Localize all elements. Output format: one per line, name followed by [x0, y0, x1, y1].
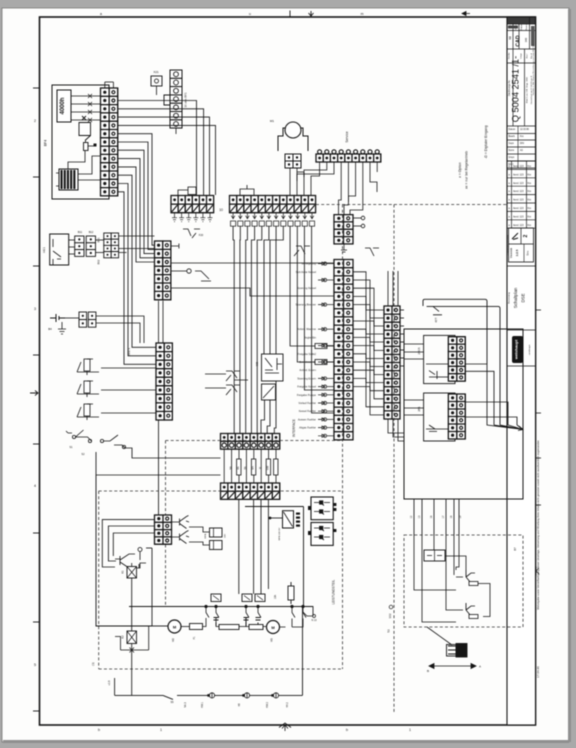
interface terminal strip X4 [334, 260, 353, 440]
wire bus vertical left [151, 548, 153, 626]
arrow into box edge [518, 426, 523, 431]
choke L1 [288, 582, 294, 604]
terminal strip X8b [230, 196, 316, 213]
wire ignition net 2 [422, 535, 456, 622]
svg-text:53: 53 [387, 629, 391, 633]
svg-text:HW.1: HW.1 [201, 701, 204, 708]
svg-text:-weishaupt-: -weishaupt- [528, 344, 531, 356]
frame top left arrowhead [462, 12, 470, 16]
svg-text:Urspr.: Urspr. [509, 156, 515, 159]
transistor Q1 [172, 516, 190, 529]
power strip X13 upper [221, 434, 280, 450]
niveau switch S1 [66, 430, 92, 443]
svg-text:3: 3 [34, 307, 36, 311]
svg-text:Sich.Kette Kessel: Sich.Kette Kessel [296, 270, 317, 274]
svg-text:B11: B11 [78, 230, 83, 234]
transistor Q2 [172, 531, 190, 544]
wire M2 to starter [181, 626, 190, 628]
X9 right stub 2 [353, 225, 361, 227]
rail switch S5 [163, 695, 185, 699]
resistor R10 on interface wire [315, 344, 327, 349]
svg-text:Blatt 1 von 1 Bl. Urspr. 1989: Blatt 1 von 1 Bl. Urspr. 1989 [526, 76, 529, 103]
svg-text:6N: 6N [237, 466, 240, 469]
svg-text:M: M [259, 467, 262, 469]
wire B22 to X3 [101, 389, 156, 391]
svg-text:Anford. Waerme: Anford. Waerme [297, 327, 316, 331]
projection box bottom divider [523, 244, 525, 262]
rail right riser to bus [302, 607, 304, 696]
frame top ticks and labels [289, 11, 291, 18]
svg-text:x = Option: x = Option [458, 162, 462, 178]
distance arrow [429, 664, 476, 669]
wire U2 left [270, 517, 283, 519]
motor connector X12 [285, 154, 301, 168]
svg-text:m: m [361, 12, 364, 16]
2B1 internal switch [429, 425, 437, 431]
svg-text:Verriegelung: Verriegelung [301, 262, 316, 266]
company logo [512, 336, 523, 363]
terminal strip X11 [384, 306, 400, 419]
wire niveau lower to power section [96, 452, 221, 475]
sensor B22 [77, 381, 99, 397]
svg-text:Zeichnungs-Nr.: Zeichnungs-Nr. [508, 80, 511, 97]
svg-text:B4: B4 [48, 327, 52, 331]
control unit BF4 outline [52, 85, 109, 199]
thermal switch F23 [226, 371, 248, 381]
wires X6 to X2 staircase [119, 236, 155, 253]
relay K1 [127, 567, 137, 579]
title block schaltplan cell [507, 265, 536, 267]
dashed power box bottom [99, 668, 343, 670]
remote unit HE1 box [50, 234, 69, 265]
pump M2 [168, 620, 181, 633]
svg-text:102: 102 [388, 613, 392, 618]
svg-text:Aend. 123: Aend. 123 [513, 190, 524, 193]
wire F23 left [205, 373, 226, 375]
dashed boundary 102 [393, 205, 395, 713]
svg-text:LEISTUNGSTEIL: LEISTUNGSTEIL [332, 579, 336, 604]
svg-text:MFB 100 SV: MFB 100 SV [279, 527, 281, 540]
wire U2 vertical drop [303, 507, 305, 607]
2B15 wire b [437, 376, 448, 378]
svg-text:K1: K1 [121, 570, 125, 574]
svg-text:Datum: Datum [520, 24, 523, 31]
loop resistor row 2 [249, 625, 263, 630]
V2 side terminals [308, 531, 311, 535]
svg-text:DSE: DSE [521, 293, 526, 302]
stub terminals right of X2 [171, 244, 179, 249]
service strip wires down [297, 162, 377, 215]
spark electrode 2 [456, 603, 475, 616]
wires X2 to X3 link [158, 301, 160, 343]
wires above X11 [388, 271, 398, 306]
bundle X8b to analog inputs [290, 226, 334, 413]
svg-text:Regler Ein: Regler Ein [304, 335, 317, 339]
electrode resistor 1 [469, 582, 478, 586]
X4 left stub wires and labels [318, 262, 334, 437]
wire net 3 [453, 535, 455, 575]
niveau switch S2 [100, 435, 125, 449]
wire B4 to X7 [65, 317, 79, 319]
burner module 2B15 box [424, 335, 455, 383]
wire K2 bottom loop [115, 627, 149, 651]
svg-text:Verteiler u. Abt. Namen Bezeic: Verteiler u. Abt. Namen Bezeichnung und … [532, 44, 535, 96]
wire X7 lower to X3 [96, 323, 140, 343]
svg-text:Norm: Norm [509, 149, 515, 152]
svg-text:4: 4 [34, 484, 36, 488]
wire MB2 down [156, 86, 158, 95]
power strip X13 lower [221, 483, 280, 499]
svg-text:N 13: N 13 [311, 619, 317, 622]
frame bottom fold arrow [279, 723, 291, 731]
dashed power box top [99, 490, 343, 492]
wire L-path 45deg upper [423, 299, 487, 364]
jumper links above X8b [240, 185, 254, 195]
wire X5-X6 b [96, 252, 104, 254]
svg-text:HE1: HE1 [42, 247, 46, 253]
svg-text:12.03.96: 12.03.96 [520, 129, 530, 131]
wire L-path outer [427, 306, 500, 425]
revision table lines [507, 161, 536, 228]
bundle X8b to power strips [233, 226, 262, 433]
svg-text:Service: Service [345, 131, 349, 142]
U2 terminal bars [296, 513, 300, 527]
starter box M2 [190, 624, 203, 630]
2B15 internal switch [429, 371, 437, 379]
relay K7 box [262, 384, 276, 400]
ignition dashed box [404, 535, 523, 627]
wire 2B1 right connections [465, 402, 508, 425]
wire R2 to bar [88, 145, 94, 147]
sensor B21 [77, 359, 99, 375]
relay K6 box [262, 354, 284, 381]
stub below BF1 [175, 128, 177, 134]
plug strip BF1 [164, 70, 182, 128]
pump M3 [267, 621, 280, 634]
switch 45deg [433, 306, 442, 314]
wire joiner [146, 547, 152, 549]
svg-text:Bearb.: Bearb. [509, 135, 516, 138]
motor M1 [285, 122, 301, 138]
wires HE1 to X5 [69, 239, 75, 241]
svg-text:Aussen Fuehler: Aussen Fuehler [298, 417, 316, 421]
wire K6 down [274, 381, 276, 434]
stub N13 [303, 612, 312, 616]
wire X14 b [108, 526, 154, 561]
wire resistor to transformer [68, 151, 85, 169]
long wire X2 lower to interface [171, 288, 334, 296]
svg-text:2: 2 [523, 234, 529, 237]
stub with lamp right of X2 [171, 270, 187, 272]
V1 side terminals [308, 506, 311, 510]
terminal bar right of R2 [94, 144, 97, 147]
svg-text:049: 049 [524, 37, 528, 42]
connector block pair X5 [75, 236, 96, 256]
diagonal pointer to plug [427, 627, 452, 645]
svg-text:MB: MB [255, 362, 259, 366]
title block header band [508, 18, 536, 25]
svg-text:MA: MA [252, 466, 255, 470]
svg-text:4000h: 4000h [60, 97, 66, 114]
svg-text:-D = Digitaler Eingang: -D = Digitaler Eingang [484, 125, 488, 158]
wire 2B15 r2 [465, 371, 494, 425]
terminal strip X1 [101, 88, 118, 196]
svg-text:Freigabe Stufe2: Freigabe Stufe2 [298, 352, 317, 356]
svg-text:(1): (1) [91, 662, 95, 665]
wires right of electrodes [478, 584, 490, 617]
thermal cutout F20 [183, 229, 200, 238]
wire to electrode 2 [446, 535, 456, 610]
svg-text:Datum: Datum [509, 128, 516, 131]
jumper box above X8a [188, 187, 196, 195]
wire bus end right [303, 607, 313, 617]
dashed interface bottom [166, 440, 343, 442]
svg-text:Anford. Extern: Anford. Extern [299, 368, 316, 372]
svg-text:BF4: BF4 [44, 140, 48, 146]
2B15 internal wires [426, 363, 448, 365]
bundle X1 to X8a connector [118, 101, 216, 196]
svg-text:u: u [249, 12, 251, 16]
svg-text:03: 03 [508, 36, 512, 40]
bundle X1 to X2 staircase [118, 134, 156, 365]
ignition transformer [424, 550, 445, 561]
svg-text:5: 5 [34, 663, 36, 667]
svg-text:2B15: 2B15 [417, 347, 421, 354]
driver connector X14 [155, 515, 172, 544]
svg-text:weishaupt: weishaupt [514, 339, 519, 360]
svg-text:B: B [427, 669, 429, 673]
motor wire 2 [296, 168, 298, 195]
svg-text:S2: S2 [81, 452, 85, 456]
resistor R2 [84, 143, 89, 151]
wire transformer upper [78, 156, 101, 174]
wire niveau to power section [125, 448, 221, 458]
svg-text:Weitergabe sowie Vervielfaelti: Weitergabe sowie Vervielfaeltigung diese… [536, 440, 540, 610]
resistor R11 on interface wire [315, 360, 327, 365]
wire left feed to pump bus [96, 475, 152, 626]
svg-text:M1: M1 [270, 119, 274, 123]
svg-text:Aend. 123: Aend. 123 [513, 165, 524, 168]
motor wires down [289, 168, 291, 195]
relay coil K3 [79, 116, 91, 141]
svg-text:Betriebsstd. Z.: Betriebsstd. Z. [299, 360, 316, 364]
wire HE1 b [69, 246, 75, 248]
svg-text:45'T: 45'T [434, 317, 438, 322]
output relay module V2 [311, 523, 333, 546]
rail inline fuse 1 [209, 693, 214, 698]
svg-text:Abgas Fuehler: Abgas Fuehler [299, 426, 316, 430]
2B15 terminal strip [448, 337, 465, 381]
battery B4 symbol [50, 314, 65, 322]
svg-text:HW.2: HW.2 [266, 701, 269, 708]
title block extra dark marks [531, 26, 535, 46]
svg-text:Kessel Fuehler: Kessel Fuehler [299, 409, 316, 413]
svg-text:Name: Name [526, 23, 528, 30]
svg-text:10: 10 [219, 208, 223, 212]
dashed boundary interface right [342, 205, 344, 670]
transformer T1 [56, 169, 78, 190]
frame left arrow mark [30, 391, 38, 396]
wire to electrode 1 [445, 556, 466, 570]
svg-text:10 okm BF1: 10 okm BF1 [184, 92, 188, 108]
transistor Q3 [115, 554, 139, 568]
2B1 internal wire [426, 428, 448, 430]
svg-text:2B1: 2B1 [417, 406, 421, 412]
svg-text:1:2.5: 1:2.5 [515, 249, 519, 256]
wire K1 to K2 [131, 578, 133, 631]
motor M1 housing [278, 128, 308, 151]
svg-text:b: b [346, 728, 348, 732]
dashed boundary top [316, 204, 507, 206]
frame right asterisk mark [533, 567, 539, 576]
bus line [129, 606, 313, 608]
svg-text:Gepr.: Gepr. [509, 142, 515, 145]
frame tick marks left [33, 87, 40, 89]
svg-text:a: a [100, 12, 102, 16]
svg-text:Schaltplan: Schaltplan [513, 287, 518, 308]
svg-text:F20: F20 [199, 233, 204, 237]
service strip X10 [316, 150, 381, 162]
wires below burner box [414, 499, 459, 535]
rail segment 2 [185, 694, 303, 696]
svg-text:Ers.f: Ers.f [526, 53, 529, 58]
rail inline fuse 2 [244, 693, 249, 698]
svg-text:B12: B12 [89, 230, 94, 234]
wire starter to bus [203, 618, 207, 627]
svg-text:NA.3: NA.3 [184, 702, 187, 708]
svg-text:B02: B02 [97, 259, 101, 264]
bottom rail wire [115, 694, 163, 696]
wire Q2-K12 [189, 542, 210, 545]
svg-text:HB: HB [238, 703, 241, 707]
wire 2B1 r2 [465, 417, 517, 425]
long wire X2 row to interface [171, 262, 334, 264]
title block vertical divider mid rows [517, 126, 519, 168]
stub wires above X1 [104, 82, 106, 88]
fuse bank F1-F4 [224, 449, 278, 483]
wire X3 down to X14 [158, 420, 160, 515]
svg-text:Freigabe Pumpe: Freigabe Pumpe [297, 393, 317, 397]
X9 right stub 1 [353, 217, 361, 219]
wire M3 to choke column [280, 619, 304, 628]
terminal strip X8a [171, 196, 214, 213]
wire B23 to X3 [101, 412, 156, 414]
wire F24 left [205, 387, 226, 389]
plug connector symbol [447, 644, 468, 658]
relay module K12 [210, 541, 223, 550]
switch right of X2 [195, 271, 211, 281]
frame top fold arrow [309, 11, 314, 16]
svg-text:NA: NA [229, 466, 232, 470]
hour counter B1 [57, 90, 71, 122]
relay K2 [127, 631, 137, 644]
wire rail left riser [114, 678, 116, 695]
terminal strip X3 [156, 343, 172, 420]
projection scale box [509, 228, 534, 262]
ground symbol below B4 [58, 322, 66, 334]
svg-text:M2: M2 [171, 638, 175, 642]
wire X7 to bundle [96, 316, 144, 343]
svg-text:MW: MW [266, 465, 269, 470]
output relay module V1 [311, 497, 333, 520]
wires X11 into burner box [400, 310, 424, 415]
svg-text:M3: M3 [270, 638, 274, 642]
svg-text:1: 1 [409, 728, 411, 732]
wire K7 b [267, 400, 270, 434]
bus junction dots [204, 605, 304, 608]
optocoupler U2 [283, 511, 294, 528]
sensor B23 [77, 404, 99, 420]
thermal contact F22 [365, 248, 379, 256]
svg-text:17.04.96: 17.04.96 [536, 666, 540, 678]
svg-text:xx = nur bei Regelantrieb: xx = nur bei Regelantrieb [465, 151, 469, 189]
capacitor symbols row [214, 618, 261, 626]
X4 german text labels [296, 262, 317, 430]
title block outline [507, 17, 536, 725]
rail dots [207, 694, 210, 697]
earth terminals below X8a [172, 213, 213, 222]
svg-text:Massstab: Massstab [510, 247, 513, 258]
wire R11 to X4 [327, 361, 334, 363]
wire K2 down to rail [131, 650, 133, 695]
svg-text:Aend. 123: Aend. 123 [513, 173, 524, 176]
wires below X11 [388, 419, 404, 441]
wires Q to K modules [189, 527, 210, 532]
wire HE1 c [69, 253, 75, 255]
2B1 terminal strip [448, 394, 465, 439]
svg-text:Stoerung Extern: Stoerung Extern [297, 376, 316, 380]
svg-text:Stoerung Brenner: Stoerung Brenner [296, 303, 317, 307]
terminal circle above Q3 [139, 552, 141, 560]
bundle X8b to relay K6 [264, 226, 283, 354]
connector module MB2 [151, 76, 162, 86]
diode mark K2 loop [130, 648, 135, 653]
relay contact modules row [211, 594, 221, 602]
thermal switch F24 [226, 385, 240, 395]
electrode resistor 2 [469, 615, 478, 619]
wire R10 to X4 [327, 345, 334, 347]
wire ignition net [414, 535, 456, 590]
main bus wire [152, 625, 168, 627]
wire Q3 to K1 [129, 563, 146, 568]
dashed power box left [98, 491, 100, 669]
thermal contact F21 [294, 246, 310, 256]
rail inline fuse 3 [273, 693, 278, 698]
svg-text:Aend. 123: Aend. 123 [513, 207, 524, 210]
frame right tick marks [536, 309, 542, 311]
svg-text:A: A [479, 665, 481, 669]
X2-X3 link b [162, 301, 164, 343]
bus stubs down with contacts [206, 607, 306, 618]
wire net 4 [456, 535, 459, 570]
arrow terminals below X8b [231, 213, 315, 227]
svg-text:Aend. 123: Aend. 123 [513, 182, 524, 185]
svg-text:Freigabe Kessel: Freigabe Kessel [297, 385, 316, 389]
svg-text:b: b [98, 728, 100, 732]
svg-text:K2: K2 [121, 635, 125, 639]
relay module K11 [210, 528, 223, 537]
wire loop1 [216, 618, 246, 627]
svg-text:1: 1 [160, 728, 162, 732]
svg-text:Projektionsmassstab: Projektionsmassstab [506, 234, 509, 255]
wire relay to resistor [85, 141, 87, 143]
svg-text:MFB: MFB [205, 533, 207, 538]
loop resistor row 1 [219, 625, 239, 630]
wire transformer to strip [78, 179, 101, 181]
svg-text:X21: X21 [153, 70, 159, 74]
burner module 2B1 box [424, 393, 455, 441]
title block upper grid lines [507, 17, 536, 168]
